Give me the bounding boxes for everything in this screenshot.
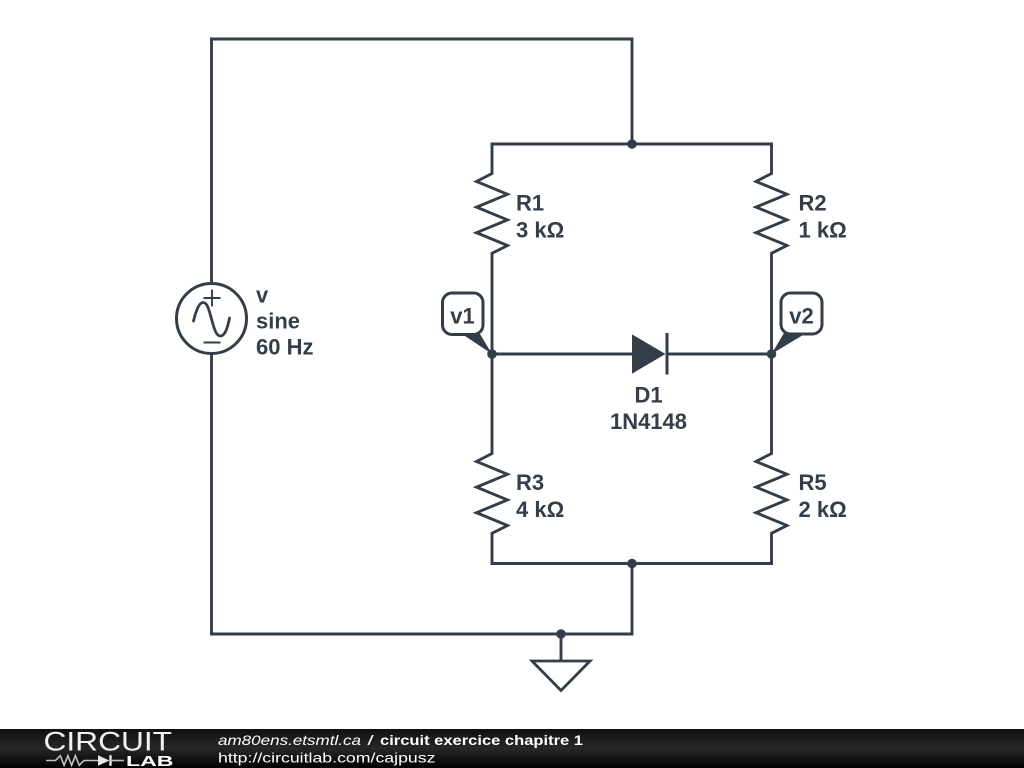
resistor R5	[756, 354, 787, 564]
svg-text:D1: D1	[634, 383, 662, 408]
svg-text:v: v	[256, 283, 269, 308]
resistor R2	[756, 144, 787, 354]
wire ground stub	[560, 634, 563, 661]
svg-text:R5: R5	[799, 470, 827, 495]
wire bottom return to source	[212, 354, 633, 635]
diode D1	[632, 333, 667, 375]
wire top loop from source to node A	[212, 39, 633, 284]
svg-text:am80ens.etsmtl.ca / circuit ex: am80ens.etsmtl.ca / circuit exercice cha…	[218, 732, 583, 748]
svg-text:1 kΩ: 1 kΩ	[799, 218, 847, 243]
junction node (bottom rail)	[627, 559, 637, 569]
junction node A (top)	[627, 139, 637, 149]
svg-text:LAB: LAB	[126, 754, 174, 768]
svg-text:http://circuitlab.com/cajpusz: http://circuitlab.com/cajpusz	[218, 750, 436, 766]
svg-text:2 kΩ: 2 kΩ	[799, 497, 847, 522]
svg-text:v2: v2	[789, 304, 813, 329]
voltage source V1	[177, 284, 247, 354]
wire mid right (diode to v2)	[668, 353, 772, 356]
svg-text:R3: R3	[516, 470, 544, 495]
svg-text:CIRCUIT: CIRCUIT	[44, 727, 173, 757]
resistor R3	[477, 354, 508, 564]
wire top rail	[492, 143, 772, 146]
node v2 dot	[767, 349, 777, 359]
wire mid left (v1 to diode)	[492, 353, 632, 356]
resistor R1	[477, 144, 508, 354]
logo diode	[98, 755, 110, 766]
svg-text:R1: R1	[516, 191, 544, 216]
svg-text:v1: v1	[450, 304, 474, 329]
svg-text:4 kΩ: 4 kΩ	[516, 497, 564, 522]
ground	[532, 661, 590, 691]
junction node (ground tap)	[556, 629, 566, 639]
svg-text:3 kΩ: 3 kΩ	[516, 218, 564, 243]
svg-text:60 Hz: 60 Hz	[256, 335, 313, 360]
node v2 flag	[772, 293, 823, 354]
node v1 flag	[443, 293, 493, 354]
svg-text:sine: sine	[256, 309, 300, 334]
svg-text:1N4148: 1N4148	[610, 409, 687, 434]
wire bottom rail	[492, 562, 772, 565]
svg-text:R2: R2	[799, 191, 827, 216]
node v1 dot	[487, 349, 497, 359]
logo resistor squiggle	[46, 756, 98, 766]
